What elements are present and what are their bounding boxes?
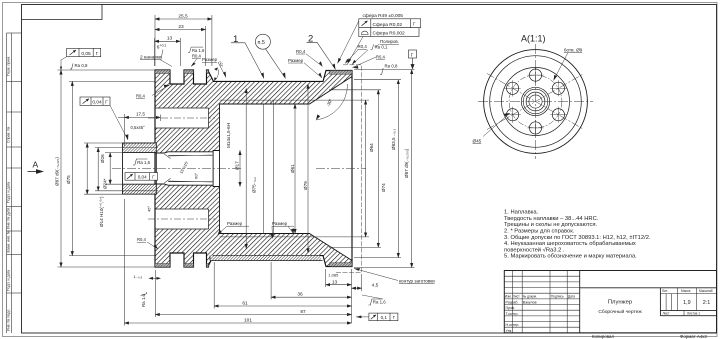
naplavka band collar top (330, 71, 353, 75)
crosshair centerlines (478, 101, 593, 103)
dim 87 (155, 314, 351, 316)
svg-text:Перв. прим.: Перв. прим. (7, 56, 11, 76)
svg-text:A: A (33, 160, 39, 170)
ext lines bottom (154, 270, 156, 317)
R0.4 bore corner label (137, 237, 158, 249)
svg-text:1,085: 1,085 (328, 273, 339, 278)
svg-text:2. * Размеры для справок.: 2. * Размеры для справок. (504, 229, 575, 235)
dim 25.5 (155, 18, 212, 20)
svg-text:+0,1: +0,1 (160, 43, 167, 47)
svg-text:Взам. инв. №: Взам. инв. № (7, 230, 11, 252)
svg-text:Утв.: Утв. (506, 329, 513, 333)
balloon 2 (307, 34, 336, 70)
p5 circle (255, 34, 285, 78)
svg-text:Ra 0,8: Ra 0,8 (75, 63, 88, 68)
svg-text:R0,4: R0,4 (137, 237, 147, 242)
blank contour (336, 65, 362, 273)
hole tick marks (505, 67, 567, 136)
svg-text:п.5: п.5 (258, 40, 265, 46)
svg-text:Подп. и дата: Подп. и дата (7, 182, 11, 203)
svg-text:Н.контр.: Н.контр. (506, 323, 520, 327)
razmer labels bottom cavity (218, 221, 295, 239)
svg-text:R0,4: R0,4 (136, 94, 146, 99)
internal bore outline (155, 77, 352, 261)
svg-text:60°: 60° (194, 173, 199, 179)
svg-text:0,1: 0,1 (381, 315, 388, 320)
dim 36 (271, 296, 351, 298)
svg-text:Инв. № подл.: Инв. № подл. (7, 309, 11, 331)
svg-text:13: 13 (167, 36, 173, 42)
svg-text:Ra 1,6: Ra 1,6 (141, 294, 146, 307)
svg-text:4,5: 4,5 (372, 283, 379, 289)
dim d24 (97, 148, 99, 191)
tol frame 0.1 (356, 313, 398, 321)
left margin columns (7, 33, 22, 333)
svg-text:Ø64: Ø64 (369, 143, 374, 152)
svg-text:Сфера R0,02: Сфера R0,02 (373, 22, 403, 28)
R0.4 at collar (296, 49, 323, 67)
svg-text:№ докум.: № докум. (523, 295, 537, 299)
naplavka band body bottom (210, 256, 323, 261)
svg-text:13: 13 (332, 279, 338, 285)
svg-text:Разраб.: Разраб. (506, 300, 519, 304)
razmer top (288, 58, 322, 78)
svg-text:Ra 1,6: Ra 1,6 (137, 160, 150, 165)
Ra 1.6 in bore (133, 159, 151, 165)
ext lines right (272, 99, 369, 101)
svg-text:Ø24*: Ø24* (103, 178, 108, 189)
svg-text:Инв. № дубл.: Инв. № дубл. (7, 207, 11, 229)
svg-text:Сборочный чертеж: Сборочный чертеж (598, 308, 642, 315)
svg-text:0,04: 0,04 (138, 174, 147, 179)
svg-text:Лист: Лист (663, 312, 670, 316)
svg-text:Ø75: Ø75 (66, 175, 71, 184)
svg-text:4. Неуказанная шероховатость о: 4. Неуказанная шероховатость обрабатывае… (504, 241, 636, 247)
svg-text:Т.контр.: Т.контр. (506, 312, 519, 316)
svg-text:6отв. Ø9: 6отв. Ø9 (564, 48, 583, 53)
R0.4 collar right (353, 55, 386, 69)
Ra 0.8 left (70, 63, 88, 69)
razmer top-left (202, 57, 226, 78)
dim d64 (365, 100, 367, 237)
svg-text:R0,4: R0,4 (376, 55, 386, 60)
svg-text:Размер: Размер (288, 58, 304, 63)
outer circle (484, 50, 588, 154)
bolt circle centerline (509, 75, 562, 128)
balloon 1 (231, 34, 264, 79)
mid circle (502, 68, 570, 136)
svg-text:3. Общие допуски по ГОСТ 30893: 3. Общие допуски по ГОСТ 30893.1: H12, h… (504, 235, 651, 241)
svg-text:1₋₀,₅: 1₋₀,₅ (134, 274, 143, 279)
svg-text:Размер: Размер (272, 221, 288, 226)
svg-text:1,9: 1,9 (683, 300, 691, 306)
svg-text:R0,4: R0,4 (192, 54, 202, 59)
Ra 1.6 left vertical (141, 292, 147, 307)
svg-text:Г: Г (411, 52, 414, 58)
dim d79 (307, 84, 309, 252)
bushing part2 (123, 143, 157, 194)
title block texts (505, 289, 713, 333)
A arrow (28, 160, 45, 174)
svg-text:Ra 1,6: Ra 1,6 (373, 300, 386, 305)
notes (504, 210, 651, 260)
svg-text:Твердость наплавки – 38...44 H: Твердость наплавки – 38...44 HRC. (504, 216, 599, 222)
svg-text:A(1:1): A(1:1) (521, 34, 546, 44)
dim d26 (86, 143, 88, 194)
ext lines top (154, 15, 156, 66)
leader 6 holes (554, 48, 583, 81)
svg-text:2 канавки: 2 канавки (140, 54, 162, 60)
thread lines (164, 154, 213, 183)
main part outline (155, 70, 352, 267)
tol frame 0.04 in bore (125, 173, 158, 181)
svg-text:Ø61: Ø61 (290, 164, 295, 173)
svg-text:Ø14 H10(⁺⁰,⁰⁷): Ø14 H10(⁺⁰,⁰⁷) (99, 196, 104, 227)
dim d75 (71, 81, 73, 255)
svg-text:Ø87 d9(₋₀,₂₀₀): Ø87 d9(₋₀,₂₀₀) (404, 148, 409, 178)
sphere callout (338, 13, 421, 64)
naplavka band flange bottom (155, 264, 209, 268)
datum G flag (409, 50, 417, 70)
dim d14 (109, 153, 111, 185)
dim d17 (239, 151, 241, 187)
leader d45 (473, 113, 511, 144)
svg-text:2: 2 (308, 34, 313, 45)
svg-text:36: 36 (297, 292, 303, 298)
svg-text:23: 23 (178, 24, 184, 30)
svg-text:15°: 15° (219, 61, 224, 67)
svg-text:Ø45: Ø45 (473, 139, 482, 144)
dim 17.5 (124, 116, 160, 118)
svg-text:Масштаб: Масштаб (699, 289, 713, 293)
svg-text:Подпись: Подпись (551, 295, 564, 299)
svg-text:Масса: Масса (681, 289, 691, 293)
dim texts top (140, 13, 188, 60)
dim texts bottom (134, 273, 379, 324)
dim 101 (124, 322, 351, 324)
polirov label (345, 39, 399, 65)
naplavka band flange top (155, 70, 209, 74)
dim texts left (55, 154, 108, 227)
svg-text:сфера R49 ±0,005: сфера R49 ±0,005 (363, 13, 404, 19)
svg-text:контур заготовки: контур заготовки (399, 278, 435, 283)
svg-text:0,04: 0,04 (92, 100, 102, 106)
bolt hole channels (155, 108, 209, 229)
kontur zagotovki label (354, 268, 435, 283)
rim circle (490, 56, 582, 148)
dim 13b (326, 284, 352, 286)
svg-text:1. Наплавка.: 1. Наплавка. (504, 210, 539, 216)
svg-text:Дата: Дата (568, 295, 575, 299)
ext lines left (58, 69, 156, 71)
bolt holes (506, 69, 564, 134)
cavity inner thread lines (220, 100, 274, 237)
svg-text:Ra 0,1: Ra 0,1 (375, 45, 388, 50)
dim d87d9 (411, 70, 413, 268)
svg-text:поверхностей √Ra3.2 .: поверхностей √Ra3.2 . (504, 246, 565, 253)
svg-text:R0,4: R0,4 (358, 44, 368, 49)
tol frame 0.05 (60, 48, 101, 70)
svg-text:45°: 45° (147, 206, 152, 212)
dim d61 (294, 104, 296, 234)
svg-text:Формат A4x3: Формат A4x3 (680, 334, 707, 339)
svg-text:17,5: 17,5 (136, 111, 145, 116)
inner dim texts (131, 84, 348, 212)
svg-text:Сфера R0,002: Сфера R0,002 (373, 31, 406, 37)
dim d83.5 (397, 80, 399, 258)
svg-text:Пров.: Пров. (506, 306, 516, 310)
dim d75-0.1 (245, 89, 247, 249)
hole centerline top (148, 117, 215, 119)
main part section hatch (155, 70, 352, 267)
tol frame 0.04 upper (80, 97, 110, 106)
svg-text:25,5: 25,5 (178, 13, 188, 19)
svg-text:Вакулов: Вакулов (523, 300, 537, 304)
svg-text:M14x1,5-6H: M14x1,5-6H (226, 123, 231, 148)
Ra 0.8 right (380, 64, 398, 75)
svg-text:0,5x45°: 0,5x45° (131, 125, 146, 130)
svg-text:Ø17: Ø17 (234, 161, 239, 170)
svg-text:Полиров.: Полиров. (380, 39, 399, 44)
svg-text:Лист: Лист (513, 295, 520, 299)
svg-text:Размер: Размер (227, 221, 243, 226)
hole centerline bottom (148, 218, 215, 220)
leader 2 kanavki (160, 50, 172, 67)
svg-text:Ø26: Ø26 (100, 154, 105, 163)
Ra1.6 R0.4 groove labels (188, 47, 224, 81)
svg-text:Плунжер: Плунжер (608, 300, 633, 306)
svg-text:1: 1 (233, 34, 238, 45)
dim 61 (214, 305, 351, 307)
svg-text:Изм.: Изм. (505, 295, 512, 299)
svg-text:Ø83,5 ₋₀,₁: Ø83,5 ₋₀,₁ (391, 129, 396, 150)
svg-text:2:1: 2:1 (703, 300, 711, 306)
svg-text:Ø74: Ø74 (381, 183, 386, 192)
hub rings (521, 87, 549, 115)
svg-text:Листов 1: Листов 1 (687, 312, 700, 316)
svg-text:Копировал: Копировал (592, 334, 614, 339)
detail view A(1:1) (473, 34, 594, 160)
svg-text:Размер: Размер (202, 57, 218, 62)
leader from 0.04 box (110, 105, 128, 140)
dim 23 (155, 29, 206, 31)
naplavka band collar bottom (330, 263, 353, 267)
dim texts right (369, 129, 409, 192)
svg-text:Ra 1,6: Ra 1,6 (192, 48, 205, 53)
title block grid (504, 271, 716, 333)
left margin labels (7, 56, 11, 331)
dim d74 (377, 90, 379, 248)
svg-text:Справ. №: Справ. № (7, 127, 11, 143)
dim 13 (155, 40, 181, 42)
dim 4.5 (352, 287, 362, 289)
svg-text:Ø79: Ø79 (303, 181, 308, 190)
svg-text:87: 87 (300, 309, 306, 315)
svg-text:Трещины и сколы не допускаются: Трещины и сколы не допускаются. (504, 222, 598, 228)
diagonal centerlines (487, 74, 584, 130)
R0.4 flange corner label (136, 85, 170, 99)
dim d87 (60, 70, 62, 267)
svg-text:61: 61 (242, 301, 248, 307)
dim 1 groove (149, 277, 161, 279)
svg-text:Лит.: Лит. (662, 289, 668, 293)
svg-text:Ø75₋₀,₁: Ø75₋₀,₁ (251, 177, 256, 193)
axis centerline (112, 168, 366, 170)
svg-text:Ra 0,8: Ra 0,8 (385, 64, 398, 69)
corner stamp box (22, 5, 103, 20)
svg-text:0,05: 0,05 (81, 51, 91, 57)
svg-text:5. Маркировать обозначение и м: 5. Маркировать обозначение и марку матер… (504, 254, 637, 260)
svg-text:Подп. и дата: Подп. и дата (7, 270, 11, 291)
svg-text:Ø87 d9(₋₀,₁₂₀): Ø87 d9(₋₀,₁₂₀) (55, 157, 60, 186)
svg-text:101: 101 (244, 318, 252, 324)
svg-text:R0,4: R0,4 (296, 49, 306, 54)
Ra 1.6 bottom right (362, 295, 386, 305)
